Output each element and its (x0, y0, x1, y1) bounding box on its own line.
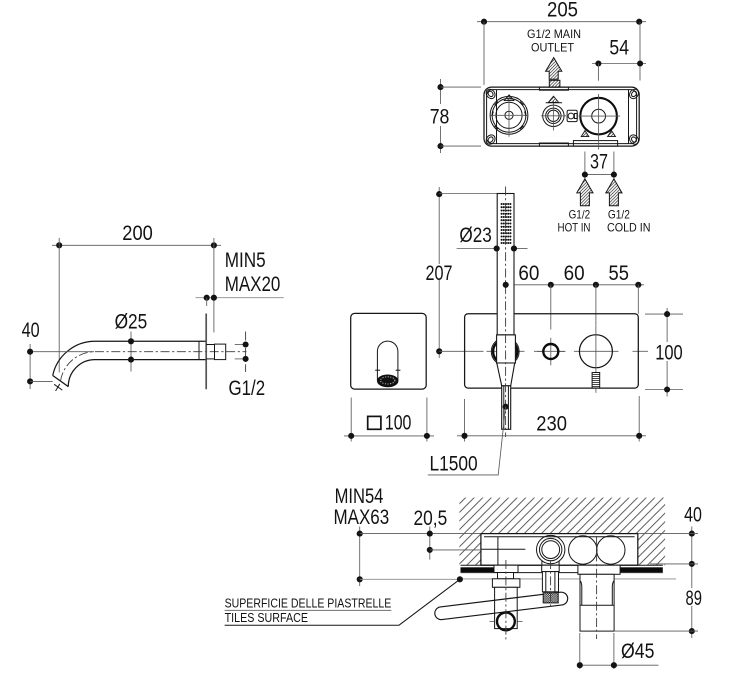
tile section strip right (620, 567, 663, 572)
svg-text:MAX63: MAX63 (334, 506, 390, 529)
svg-text:37: 37 (590, 150, 608, 173)
corner screw boss TL (484, 87, 497, 100)
dimension 37 (582, 150, 617, 178)
mixer centreline (505, 560, 507, 641)
svg-text:Ø45: Ø45 (621, 640, 654, 663)
svg-text:200: 200 (122, 222, 153, 245)
wand knurl dots (501, 203, 512, 244)
wall hatching (459, 498, 665, 566)
body outline (484, 87, 639, 146)
volume handle front (579, 325, 612, 393)
dimension 230 (457, 396, 646, 442)
svg-text:20,5: 20,5 (414, 507, 448, 530)
left cartridge (490, 95, 528, 137)
handshower holder ring (491, 338, 519, 366)
wall surface line (461, 564, 663, 566)
outlet stub on body (549, 80, 560, 87)
svg-text:OUTLET: OUTLET (531, 41, 575, 55)
diverter body section (537, 535, 565, 565)
square spout plate (351, 313, 427, 389)
svg-text:G1/2 MAIN: G1/2 MAIN (527, 27, 581, 41)
wand centreline (505, 187, 507, 438)
dimension 100 right (645, 308, 684, 397)
volume handle centreline (596, 536, 598, 639)
dimension 205 (477, 0, 646, 85)
svg-text:230: 230 (536, 413, 567, 436)
top tab (539, 87, 568, 90)
cold in arrow (606, 179, 622, 206)
spout mouth (53, 376, 69, 387)
svg-text:TILES SURFACE: TILES SURFACE (225, 610, 309, 625)
dimension 54 (592, 36, 646, 80)
dimension MIN54 MAX63 (334, 485, 481, 586)
tile surface line (gray) (461, 578, 677, 580)
dimension 207 (425, 187, 497, 358)
dimension 89 (614, 587, 703, 634)
embedded body outline (481, 534, 638, 566)
svg-text:L1500: L1500 (430, 453, 478, 476)
dimension 20,5 (414, 507, 482, 560)
middle valve (541, 96, 577, 130)
corner screw boss BL (484, 133, 497, 146)
dimension 60 60 55 (498, 262, 644, 330)
tile section strip left (461, 567, 495, 572)
mixer trim stack (492, 565, 520, 628)
svg-text:78: 78 (430, 106, 450, 129)
dimension diameter 45 (577, 633, 659, 669)
hose leader dot for L1500 (503, 404, 509, 410)
svg-text:89: 89 (686, 587, 702, 610)
tile front line (461, 572, 663, 574)
plate centreline (439, 350, 648, 352)
svg-text:MIN54: MIN54 (335, 485, 384, 508)
right valve (579, 94, 621, 150)
lever handle capsule (435, 592, 568, 619)
stop wedge left (581, 131, 589, 137)
spout front slot (375, 341, 400, 387)
threaded nipple (206, 344, 226, 360)
spout tube (53, 341, 207, 391)
dimension diameter 25 (115, 310, 148, 371)
label L1500 with leader (428, 407, 506, 476)
dots redrawn over wand (494, 245, 500, 251)
svg-text:SUPERFICIE DELLE PIASTRELLE: SUPERFICIE DELLE PIASTRELLE (225, 596, 392, 611)
svg-text:G1/2: G1/2 (229, 377, 266, 400)
wall plate (205, 314, 207, 390)
svg-text:60: 60 (518, 262, 539, 285)
bottom tab (539, 143, 568, 146)
handshower wand (497, 194, 516, 430)
dimension diameter 23 (457, 224, 528, 251)
svg-text:COLD IN: COLD IN (607, 220, 651, 234)
svg-text:40: 40 (684, 504, 702, 527)
hot in arrow (577, 179, 593, 206)
stop wedge right (608, 131, 616, 137)
svg-text:HOT IN: HOT IN (558, 220, 591, 234)
svg-text:54: 54 (609, 36, 629, 59)
diverter trim stack (542, 565, 560, 603)
svg-text:MAX20: MAX20 (225, 273, 281, 296)
dimension 40 (22, 319, 53, 389)
volume handle trim (578, 565, 620, 631)
svg-text:205: 205 (547, 0, 578, 21)
svg-text:207: 207 (426, 262, 453, 285)
svg-text:40: 40 (22, 319, 40, 342)
bottom wide tab (573, 141, 617, 147)
dimension MIN5 MAX20 (196, 249, 284, 306)
small latch box (567, 110, 577, 121)
embedded body white fill (481, 534, 638, 566)
lever knob circle (490, 613, 523, 631)
corner screw boss BR (628, 133, 641, 146)
svg-text:60: 60 (564, 262, 585, 285)
mixer plate (465, 314, 639, 388)
dimension 200 (52, 222, 221, 373)
svg-text:100: 100 (655, 342, 683, 365)
dimension square 100 (344, 398, 434, 442)
spout centreline (33, 351, 94, 353)
corner screw boss TR (628, 87, 641, 100)
dimension G1/2 (229, 332, 266, 400)
label tiles surface (225, 576, 463, 625)
svg-text:MIN5: MIN5 (225, 249, 266, 272)
main outlet arrow (hatched) (546, 58, 562, 80)
svg-text:Ø25: Ø25 (115, 310, 148, 333)
svg-text:Ø23: Ø23 (459, 224, 491, 247)
dimension 40 right (638, 504, 702, 638)
diverter knob front (537, 338, 564, 366)
volume body section circles (569, 536, 625, 564)
diverter centreline (550, 560, 552, 609)
svg-text:55: 55 (609, 262, 629, 285)
dimension 78 (430, 79, 481, 153)
svg-text:100: 100 (385, 411, 412, 434)
